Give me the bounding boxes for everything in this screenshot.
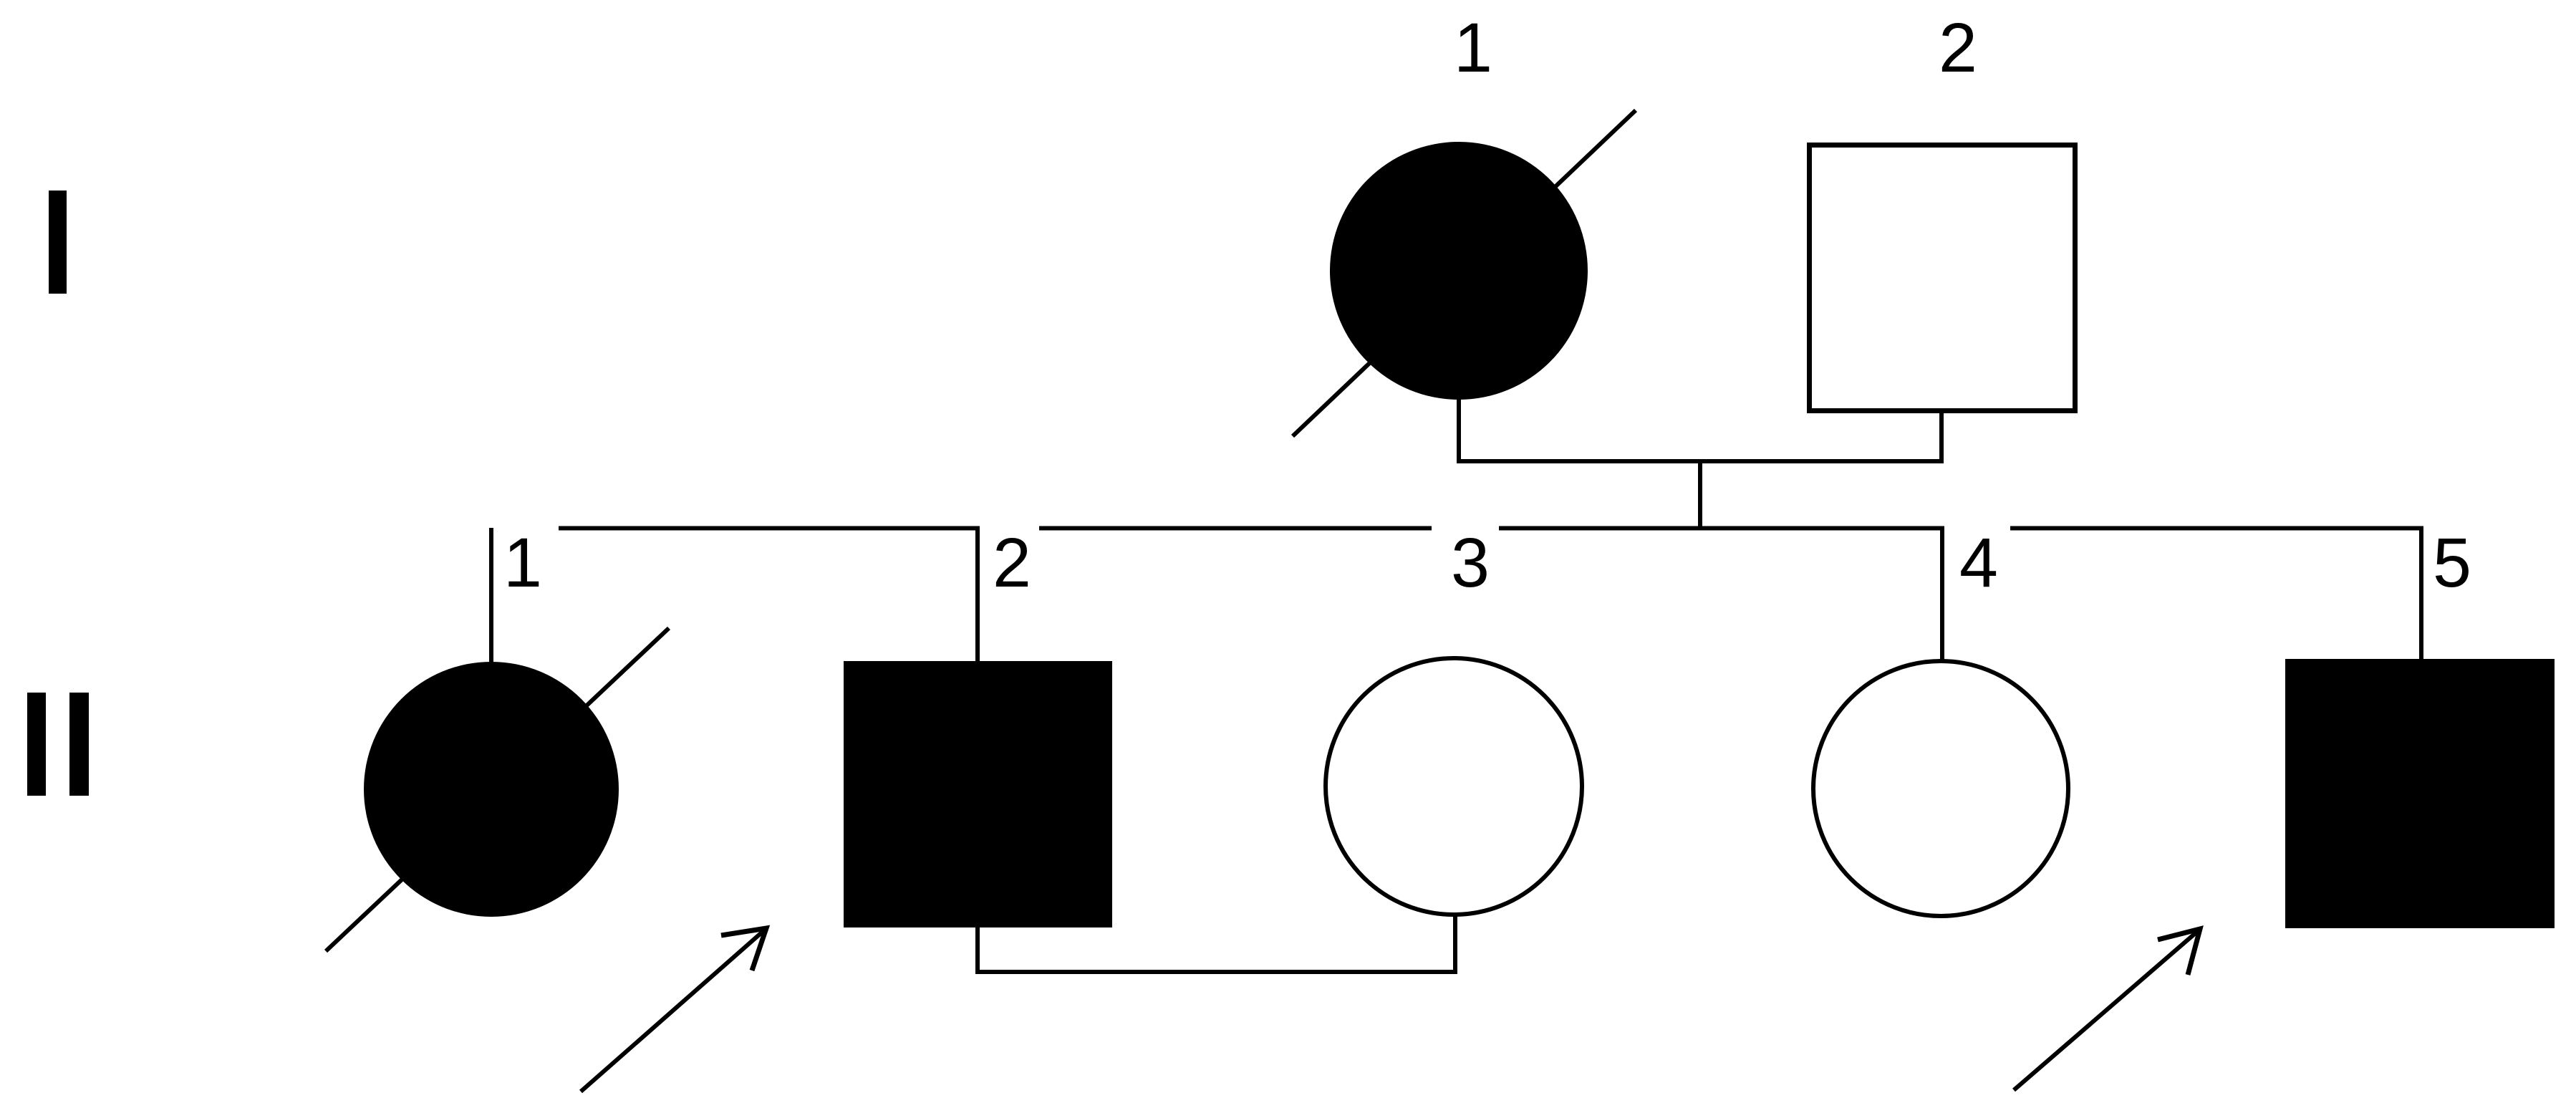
svg-text:1: 1 — [1454, 9, 1492, 87]
svg-text:3: 3 — [1451, 524, 1490, 602]
svg-text:5: 5 — [2433, 524, 2471, 602]
svg-text:1: 1 — [503, 524, 542, 602]
svg-text:2: 2 — [993, 524, 1031, 602]
svg-text:4: 4 — [1959, 524, 1998, 602]
svg-text:2: 2 — [1939, 9, 1977, 87]
